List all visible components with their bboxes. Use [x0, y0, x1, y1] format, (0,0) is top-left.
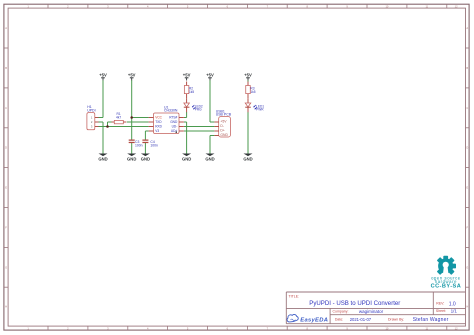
svg-text:CH330N: CH330N — [164, 109, 178, 113]
OSHW logo gear — [437, 256, 456, 277]
svg-text:GND: GND — [220, 133, 228, 137]
wire U1 UD+ to USB D+ — [184, 130, 214, 132]
svg-text:UPDI: UPDI — [87, 109, 95, 113]
svg-text:1k5: 1k5 — [250, 90, 255, 94]
LED LED1 PWR — [245, 98, 264, 112]
svg-text:+5V: +5V — [220, 120, 227, 124]
svg-text:PyUPDI - USB to UPDI Converter: PyUPDI - USB to UPDI Converter — [309, 300, 400, 307]
svg-text:H: H — [5, 305, 7, 309]
wire U1 UD- to USB D- — [184, 126, 214, 128]
wire LED1 to GND — [247, 112, 249, 154]
svg-text:+5V: +5V — [183, 72, 191, 77]
junction UPDI node — [106, 125, 109, 128]
resistor R1 4k7 — [112, 112, 127, 124]
power flag +5V x=210 — [206, 72, 214, 80]
svg-text:USB PCB: USB PCB — [216, 112, 232, 116]
svg-text:+5V: +5V — [99, 72, 107, 77]
svg-text:1.0: 1.0 — [449, 301, 456, 307]
wire UPDI branch up to R1 — [107, 122, 109, 127]
svg-text:EasyEDA: EasyEDA — [300, 317, 328, 323]
svg-text:B: B — [5, 66, 7, 70]
LED LED2 PRG — [184, 98, 203, 112]
capacitor C4 100n — [142, 140, 158, 148]
svg-text:G: G — [466, 265, 468, 269]
ground flag x=145.4 — [141, 154, 150, 162]
svg-text:GND: GND — [182, 156, 191, 161]
svg-text:H: H — [466, 305, 468, 309]
IC U1 CH330N — [149, 105, 184, 133]
ground flag x=103 — [98, 154, 107, 162]
wire U1 V3 to C4 — [145, 130, 148, 132]
wire +5V rail branch to U1 VCC — [132, 117, 149, 119]
svg-text:1k5: 1k5 — [189, 90, 194, 94]
svg-text:+5V: +5V — [206, 72, 214, 77]
svg-text:VCC: VCC — [155, 116, 162, 120]
svg-text:GND: GND — [141, 156, 150, 161]
svg-text:TITLE:: TITLE: — [289, 295, 300, 299]
svg-text:+5V: +5V — [244, 72, 252, 77]
wire +5V rail to C3 — [131, 80, 133, 139]
svg-text:GND: GND — [243, 156, 252, 161]
svg-text:Company:: Company: — [333, 309, 349, 313]
wire UPDI: H1 pin3 to U1 RXD — [98, 126, 148, 128]
svg-text:wagiminator: wagiminator — [359, 309, 384, 314]
svg-text:GND: GND — [205, 156, 214, 161]
svg-text:Drawn By:: Drawn By: — [388, 317, 404, 321]
title block frame — [286, 292, 465, 324]
svg-text:PWR: PWR — [256, 108, 264, 112]
capacitor C3 100n — [129, 140, 143, 148]
svg-text:E: E — [5, 186, 7, 190]
svg-text:4k7: 4k7 — [116, 115, 121, 119]
wire C3 to GND — [131, 143, 133, 154]
svg-text:CC-BY-SA: CC-BY-SA — [431, 284, 462, 290]
svg-text:Stefan Wagner: Stefan Wagner — [413, 317, 449, 323]
wire +5V to USB +5V — [209, 80, 211, 122]
connector USB1 USB PCB — [214, 109, 231, 137]
EasyEDA logo — [287, 314, 328, 323]
ground flag x=186.6 — [182, 154, 191, 162]
svg-text:RTS#: RTS# — [169, 116, 177, 120]
power flag +5V x=186.6 — [183, 72, 191, 80]
svg-text:PRG: PRG — [195, 108, 202, 112]
wire +5V to R3 — [247, 80, 249, 82]
resistor R2 1k5 — [184, 82, 194, 99]
power flag +5V x=131.7 — [128, 72, 136, 80]
wire +5V to H1 pin1 — [102, 80, 104, 117]
svg-text:D: D — [466, 146, 468, 150]
svg-text:V3: V3 — [155, 129, 159, 133]
wire U1 GND to ground — [184, 121, 187, 123]
svg-text:C: C — [466, 106, 468, 110]
svg-text:A: A — [466, 26, 468, 30]
svg-text:1/1: 1/1 — [451, 308, 458, 313]
ground flag x=210 — [205, 154, 214, 162]
wire H1 pin2 to GND — [98, 121, 103, 123]
svg-text:GND: GND — [98, 156, 107, 161]
svg-text:GND: GND — [127, 156, 136, 161]
svg-text:G: G — [5, 265, 7, 269]
connector H1 UPDI — [87, 105, 99, 130]
wire LED2 to U1 RTS# — [186, 112, 188, 118]
svg-text:E: E — [466, 186, 468, 190]
svg-text:TXD: TXD — [155, 120, 162, 124]
svg-text:D-: D- — [220, 124, 224, 128]
svg-text:+5V: +5V — [128, 72, 136, 77]
svg-text:RXD: RXD — [155, 125, 162, 129]
svg-text:Date:: Date: — [335, 317, 343, 321]
wire C4 to GND — [144, 143, 146, 154]
svg-text:A: A — [5, 26, 7, 30]
power flag +5V x=248 — [244, 72, 252, 80]
svg-text:B: B — [466, 66, 468, 70]
resistor R3 1k5 — [246, 82, 256, 99]
wire USB GND to ground — [210, 135, 214, 137]
svg-text:UD-: UD- — [172, 125, 178, 129]
ground flag x=248 — [243, 154, 252, 162]
svg-text:C: C — [5, 106, 7, 110]
svg-text:D: D — [5, 146, 7, 150]
junction +5V/VCC node — [130, 116, 133, 119]
svg-text:100n: 100n — [135, 143, 143, 147]
wire R1 to U1 TXD — [127, 121, 149, 123]
svg-text:GND: GND — [170, 120, 178, 124]
svg-text:REV:: REV: — [436, 301, 444, 305]
svg-text:100n: 100n — [150, 143, 158, 147]
power flag +5V x=103 — [99, 72, 107, 80]
svg-text:Sheet:: Sheet: — [436, 309, 446, 313]
svg-text:2021-01-07: 2021-01-07 — [350, 317, 372, 322]
ground flag x=131.7 — [127, 154, 136, 162]
